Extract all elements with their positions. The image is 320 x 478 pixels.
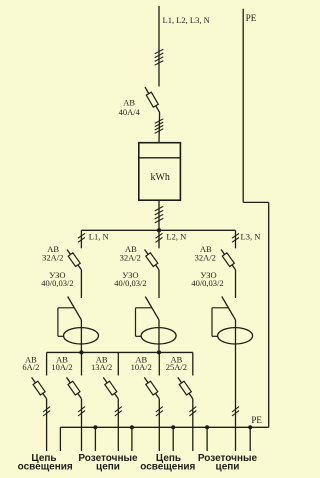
wire: final breaker 5 outgoing: [192, 399, 194, 451]
load label: lighting circuit 1: [18, 453, 73, 472]
wire: final breaker 3 outgoing: [117, 399, 119, 451]
hatch: 4-conductor mark above meter: [155, 119, 164, 134]
hatch: 2-conductor mark circuit 4: [156, 407, 163, 416]
hatch: 4-conductor mark on supply: [155, 49, 164, 65]
wire: breaker to RCD branch 1: [80, 270, 82, 298]
breaker AB 32A/2 branch 2 blade: [145, 250, 159, 270]
hatch: 2-conductor mark circuit 1: [43, 407, 50, 416]
wire: PE tap 5: [205, 425, 209, 451]
wire: final breaker 4 drop: [158, 352, 160, 375]
wire: breaker to RCD branch 2: [158, 270, 160, 298]
RCD UZO branch 3 toroid: [218, 328, 253, 344]
svg-text:40/0,03/2: 40/0,03/2: [191, 278, 223, 288]
wire: incoming supply line: [158, 6, 160, 87]
label AB 13А/2 breaker 3: [91, 354, 112, 372]
wire: PE distribution bus: [60, 426, 268, 428]
RCD UZO branch 1 toroid: [64, 328, 99, 344]
wire: final breaker 2 outgoing: [81, 399, 83, 451]
kWh meter box: [139, 143, 181, 201]
label UZO 40/0,03/2 branch 2: [114, 270, 146, 288]
junction node branch 2 on group bus: [157, 350, 161, 354]
load label: socket circuits 2: [198, 453, 258, 472]
svg-text:kWh: kWh: [150, 172, 169, 183]
RCD UZO branch 3 blade: [222, 297, 236, 320]
wire: PE tap 6: [248, 425, 252, 451]
hatch: 2-conductor mark circuit 3: [115, 407, 122, 416]
svg-text:25А/2: 25А/2: [166, 362, 187, 372]
wire: final breaker 1 outgoing: [46, 399, 48, 451]
breaker AB 32A/2 branch 3 blade: [221, 250, 235, 270]
svg-text:10А/2: 10А/2: [51, 362, 72, 372]
label AB 32A/2 branch 2: [120, 244, 141, 262]
wire: RCD output branch 3 direct to outlet circuit: [235, 320, 237, 451]
wire: RCD output branch 2: [158, 320, 160, 353]
svg-text:40/0,03/2: 40/0,03/2: [41, 278, 73, 288]
wire: RCD output branch 1: [80, 320, 82, 353]
node label L3, N: [241, 231, 261, 241]
label AB 10А/2 breaker 4: [131, 354, 152, 372]
node label L1, L2, L3, N: [163, 15, 210, 25]
svg-text:32А/2: 32А/2: [120, 252, 141, 262]
load label: socket circuits 1: [78, 453, 138, 472]
wire: final breaker 4 outgoing: [158, 399, 160, 451]
svg-text:PE: PE: [246, 14, 257, 24]
label AB 25А/2 breaker 5: [166, 354, 187, 372]
wire: main distribution bus: [81, 229, 235, 231]
hatch: 4-conductor mark below meter: [155, 206, 164, 223]
svg-text:10А/2: 10А/2: [131, 362, 152, 372]
RCD UZO branch 2 blade: [145, 297, 159, 320]
svg-text:32А/2: 32А/2: [195, 252, 216, 262]
wire: PE tap 3: [130, 425, 134, 451]
wire: final breaker 5 drop: [192, 352, 194, 375]
wire: PE tap 1: [59, 427, 61, 451]
label AB 32A/2 branch 1: [42, 244, 63, 262]
svg-text:40А/4: 40А/4: [119, 107, 141, 117]
hatch: 2-conductor mark branch 3 outlet: [232, 407, 239, 416]
label UZO 40/0,03/2 branch 1: [41, 270, 73, 288]
breaker AB 10А/2 blade: [144, 377, 159, 398]
junction node branch 1 on group bus: [79, 350, 83, 354]
wire: breaker to RCD branch 3: [235, 270, 237, 298]
wire: final breaker 2 drop: [81, 352, 83, 375]
wire: branch 1 drop from bus: [80, 230, 82, 248]
hatch: 2-conductor mark branch 3: [232, 233, 239, 242]
breaker AB 6А/2 blade: [32, 377, 47, 398]
RCD UZO branch 1 blade: [68, 297, 82, 320]
hatch: 2-conductor mark circuit 5: [189, 407, 196, 416]
wire: breaker to meter: [158, 112, 161, 142]
RCD UZO branch 3 test link: [212, 308, 229, 337]
junction node on main bus: [157, 228, 161, 232]
wire: final breaker 1 drop: [46, 352, 48, 375]
wire: PE tap 2: [93, 425, 97, 451]
RCD UZO branch 2 test link: [136, 308, 153, 337]
RCD UZO branch 2 toroid: [141, 328, 176, 344]
wire: final breaker 3 drop: [117, 352, 119, 375]
svg-text:освещения: освещения: [18, 462, 73, 473]
breaker AB 40A/4 blade: [145, 87, 160, 112]
label AB 10А/2 breaker 2: [51, 354, 72, 372]
svg-text:13А/2: 13А/2: [91, 362, 112, 372]
svg-text:40/0,03/2: 40/0,03/2: [114, 278, 146, 288]
wire: PE riser: [243, 9, 269, 428]
svg-text:цепи: цепи: [96, 462, 120, 473]
svg-text:цепи: цепи: [216, 462, 240, 473]
breaker AB 10А/2 blade: [67, 377, 82, 398]
net label PE (bottom): [251, 415, 262, 425]
hatch: 2-conductor mark branch 1: [78, 233, 85, 242]
svg-text:L1, L2, L3, N: L1, L2, L3, N: [163, 15, 210, 25]
hatch: 2-conductor mark circuit 2: [78, 407, 85, 416]
hatch: 2-conductor mark branch 2: [156, 233, 163, 242]
breaker AB 25А/2 blade: [178, 377, 193, 398]
label AB 32A/2 branch 3: [195, 244, 216, 262]
wire: PE tap 4: [171, 425, 175, 451]
load label: lighting circuit 2: [140, 453, 195, 472]
breaker AB 13А/2 blade: [103, 377, 118, 398]
RCD UZO branch 1 test link: [58, 308, 75, 337]
node label L2, N: [166, 231, 186, 241]
svg-text:PE: PE: [251, 415, 262, 425]
node label L1, N: [89, 231, 109, 241]
svg-text:L1, N: L1, N: [89, 231, 109, 241]
svg-text:освещения: освещения: [140, 462, 195, 473]
net label PE (top): [246, 14, 257, 24]
wire: group distribution bus: [47, 351, 193, 353]
wire: meter to bus: [158, 200, 160, 230]
svg-text:L2, N: L2, N: [166, 231, 186, 241]
svg-text:L3, N: L3, N: [241, 231, 261, 241]
label AB 6А/2 breaker 1: [22, 354, 39, 372]
wire: branch 2 drop from bus: [158, 230, 160, 248]
label UZO 40/0,03/2 branch 3: [191, 270, 223, 288]
label AB 40A/4: [119, 98, 141, 117]
svg-text:32А/2: 32А/2: [42, 252, 63, 262]
svg-text:6А/2: 6А/2: [22, 362, 39, 372]
wire: branch 3 drop from bus: [235, 230, 237, 248]
breaker AB 32A/2 branch 1 blade: [67, 250, 81, 270]
